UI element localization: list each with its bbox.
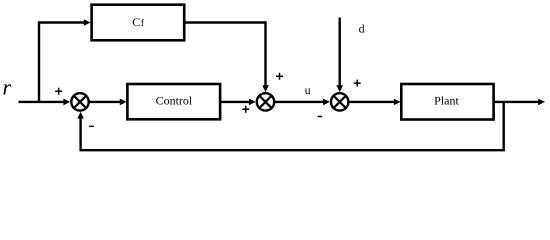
svg-text:d: d — [359, 22, 365, 36]
svg-text:Plant: Plant — [434, 94, 459, 108]
svg-text:r: r — [3, 75, 12, 100]
svg-text:u: u — [305, 83, 311, 97]
svg-text:Control: Control — [156, 94, 193, 108]
